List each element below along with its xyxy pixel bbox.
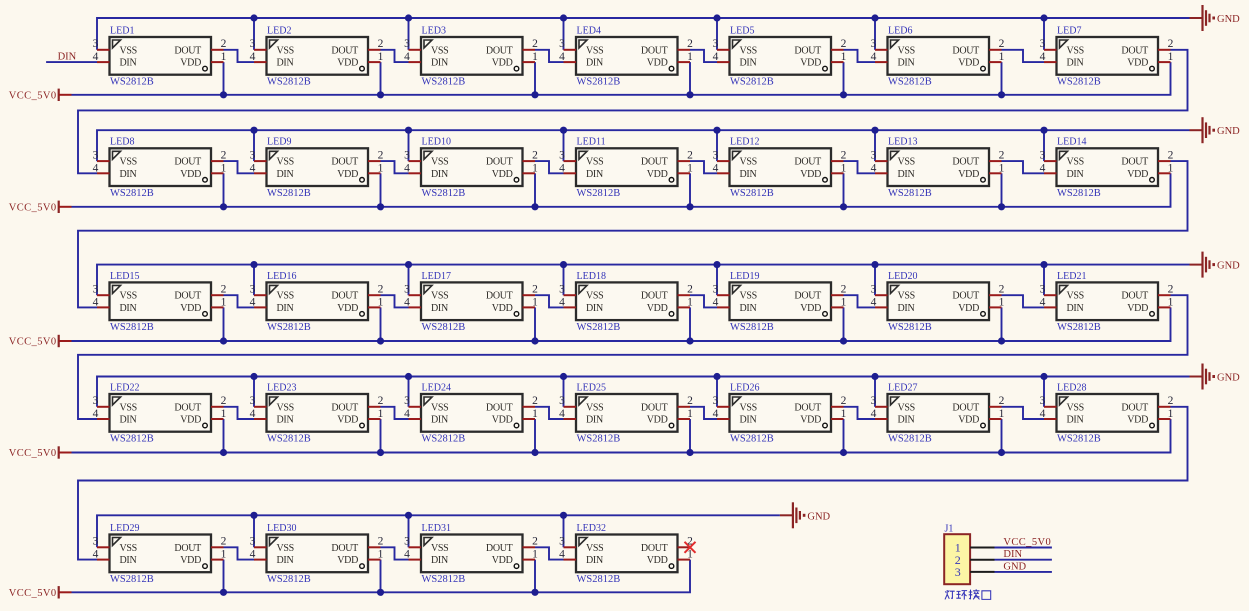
svg-text:LED7: LED7 bbox=[1057, 25, 1081, 36]
svg-text:1: 1 bbox=[1168, 51, 1174, 63]
wire LED31 VDD to VCC rail bbox=[534, 560, 536, 593]
svg-text:WS2812B: WS2812B bbox=[730, 188, 774, 199]
LED6 polarity triangle bbox=[891, 40, 899, 48]
svg-text:GND: GND bbox=[1217, 261, 1240, 272]
svg-text:VDD: VDD bbox=[180, 415, 201, 426]
svg-text:VDD: VDD bbox=[647, 415, 668, 426]
LED5 pin 4 DIN stub bbox=[717, 61, 730, 63]
wire LED7 VSS to GND rail bbox=[1043, 18, 1045, 50]
LED9 pin 3 VSS stub bbox=[254, 160, 267, 162]
svg-text:4: 4 bbox=[404, 296, 410, 308]
svg-text:4: 4 bbox=[1040, 162, 1046, 174]
wire LED17 VSS to GND rail bbox=[408, 265, 410, 296]
LED30 pin 3 VSS stub bbox=[254, 546, 267, 548]
LED8 pin 1 VDD stub bbox=[211, 172, 224, 174]
LED26 pin 3 VSS stub bbox=[717, 406, 730, 408]
svg-text:WS2812B: WS2812B bbox=[267, 434, 311, 445]
LED10 pin 1 VDD stub bbox=[523, 172, 536, 174]
svg-text:VDD: VDD bbox=[1127, 415, 1148, 426]
svg-text:2: 2 bbox=[221, 38, 227, 50]
svg-text:1: 1 bbox=[687, 408, 693, 420]
svg-text:3: 3 bbox=[713, 38, 719, 50]
svg-text:2: 2 bbox=[378, 284, 384, 296]
junction VCC rail row 5 col 1 bbox=[220, 589, 227, 596]
LED12 pin 1 VDD stub bbox=[831, 172, 844, 174]
svg-text:WS2812B: WS2812B bbox=[110, 322, 154, 333]
LED16 pin 3 VSS stub bbox=[254, 294, 267, 296]
LED22 pin 1 marker circle bbox=[203, 423, 208, 428]
svg-text:3: 3 bbox=[955, 565, 961, 579]
LED5 pin 3 VSS stub bbox=[717, 49, 730, 51]
svg-text:WS2812B: WS2812B bbox=[1057, 77, 1101, 88]
LED6 pin 1 VDD stub bbox=[989, 61, 1002, 63]
svg-text:2: 2 bbox=[841, 38, 847, 50]
LED28 body bbox=[1057, 394, 1159, 432]
svg-text:VCC_5V0: VCC_5V0 bbox=[9, 90, 57, 101]
LED8 pin 3 VSS stub bbox=[97, 160, 110, 162]
wire LED23 VSS to GND rail bbox=[253, 377, 255, 407]
wire VCC_5V0 rail row 2 bbox=[72, 173, 1171, 207]
LED10 pin 4 DIN stub bbox=[409, 172, 422, 174]
svg-text:2: 2 bbox=[221, 395, 227, 407]
wire LED13 DOUT to LED14 DIN bbox=[1002, 161, 1045, 173]
svg-text:DOUT: DOUT bbox=[952, 402, 979, 413]
LED25 body bbox=[576, 394, 678, 432]
LED14 polarity triangle bbox=[1060, 151, 1068, 159]
svg-text:3: 3 bbox=[93, 150, 99, 162]
wire LED2 VSS to GND rail bbox=[253, 18, 255, 50]
ground symbol row 5 bbox=[780, 502, 831, 528]
IC LED30 (WS2812B) bbox=[250, 523, 384, 585]
wire VCC_5V0 rail row 3 bbox=[72, 307, 1171, 341]
svg-text:VDD: VDD bbox=[800, 58, 821, 69]
svg-text:DIN: DIN bbox=[120, 415, 137, 426]
LED31 pin 1 VDD stub bbox=[523, 559, 536, 561]
LED31 pin 3 VSS stub bbox=[409, 546, 422, 548]
LED2 body bbox=[267, 37, 369, 75]
LED11 polarity triangle bbox=[579, 151, 587, 159]
LED31 body bbox=[421, 535, 523, 573]
junction GND rail row 1 col 7 bbox=[1040, 14, 1047, 21]
wire LED11 VDD to VCC rail bbox=[689, 173, 691, 207]
LED21 pin 2 DOUT stub bbox=[1158, 294, 1171, 296]
LED20 pin 1 VDD stub bbox=[989, 306, 1002, 308]
svg-text:1: 1 bbox=[378, 408, 384, 420]
svg-text:1: 1 bbox=[999, 296, 1005, 308]
junction VCC rail row 1 col 2 bbox=[377, 91, 384, 98]
junction GND rail row 4 col 6 bbox=[871, 373, 878, 380]
LED21 pin 1 marker circle bbox=[1150, 312, 1155, 317]
svg-text:DIN: DIN bbox=[277, 58, 294, 69]
wire LED32 VSS to GND rail bbox=[563, 515, 565, 547]
junction VCC rail row 1 col 3 bbox=[531, 91, 538, 98]
LED10 body bbox=[421, 148, 523, 186]
LED18 pin 4 DIN stub bbox=[564, 306, 577, 308]
svg-text:LED24: LED24 bbox=[422, 382, 451, 393]
wire LED22 VDD to VCC rail bbox=[223, 419, 225, 453]
svg-text:4: 4 bbox=[93, 296, 99, 308]
LED5 body bbox=[730, 37, 832, 75]
svg-text:VSS: VSS bbox=[120, 543, 137, 554]
svg-text:4: 4 bbox=[404, 549, 410, 561]
svg-text:LED1: LED1 bbox=[110, 25, 134, 36]
svg-text:1: 1 bbox=[532, 408, 538, 420]
svg-text:VSS: VSS bbox=[740, 157, 757, 168]
LED13 pin 4 DIN stub bbox=[875, 172, 888, 174]
LED15 pin 3 VSS stub bbox=[97, 294, 110, 296]
junction VCC rail row 3 col 6 bbox=[998, 337, 1005, 344]
svg-text:VDD: VDD bbox=[337, 303, 358, 314]
junction GND rail row 3 col 6 bbox=[871, 261, 878, 268]
wire LED30 VDD to VCC rail bbox=[380, 560, 382, 593]
junction GND rail row 4 col 2 bbox=[250, 373, 257, 380]
LED21 pin 4 DIN stub bbox=[1044, 306, 1057, 308]
wire LED17 VDD to VCC rail bbox=[534, 307, 536, 341]
wire LED6 VDD to VCC rail bbox=[1001, 62, 1003, 95]
svg-text:VDD: VDD bbox=[800, 169, 821, 180]
wire LED18 VSS to GND rail bbox=[563, 265, 565, 296]
svg-text:DOUT: DOUT bbox=[174, 543, 201, 554]
wire LED27 VSS to GND rail bbox=[874, 377, 876, 407]
ground symbol row 3 bbox=[1190, 252, 1241, 278]
svg-text:1: 1 bbox=[841, 51, 847, 63]
svg-text:VSS: VSS bbox=[586, 402, 603, 413]
LED11 body bbox=[576, 148, 678, 186]
LED4 body bbox=[576, 37, 678, 75]
svg-text:1: 1 bbox=[999, 51, 1005, 63]
svg-text:VDD: VDD bbox=[958, 169, 979, 180]
svg-text:VSS: VSS bbox=[1067, 402, 1084, 413]
wire LED24 VSS to GND rail bbox=[408, 377, 410, 407]
LED6 pin 1 marker circle bbox=[981, 66, 986, 71]
svg-text:3: 3 bbox=[1040, 150, 1046, 162]
wire LED20 DOUT to LED21 DIN bbox=[1002, 295, 1045, 307]
LED1 pin 1 VDD stub bbox=[211, 61, 224, 63]
wire LED6 DOUT to LED7 DIN bbox=[1002, 50, 1045, 62]
LED13 pin 1 VDD stub bbox=[989, 172, 1002, 174]
svg-text:2: 2 bbox=[532, 395, 538, 407]
svg-text:4: 4 bbox=[559, 162, 565, 174]
svg-text:2: 2 bbox=[532, 284, 538, 296]
svg-text:VSS: VSS bbox=[586, 157, 603, 168]
wire net DIN input to LED1 bbox=[46, 61, 97, 63]
svg-text:3: 3 bbox=[250, 395, 256, 407]
junction VCC rail row 3 col 4 bbox=[686, 337, 693, 344]
LED19 body bbox=[730, 282, 832, 320]
junction VCC rail row 3 col 2 bbox=[377, 337, 384, 344]
LED27 pin 1 marker circle bbox=[981, 423, 986, 428]
svg-text:DOUT: DOUT bbox=[1121, 291, 1148, 302]
svg-text:DOUT: DOUT bbox=[174, 402, 201, 413]
IC LED4 (WS2812B) bbox=[559, 25, 693, 87]
IC LED24 (WS2812B) bbox=[404, 382, 538, 444]
wire LED4 VDD to VCC rail bbox=[689, 62, 691, 95]
no-connect flag on LED32 DOUT bbox=[685, 542, 696, 553]
LED11 pin 1 marker circle bbox=[669, 178, 674, 183]
svg-text:LED31: LED31 bbox=[422, 523, 451, 534]
wire LED27 DOUT to LED28 DIN bbox=[1002, 407, 1045, 419]
junction GND rail row 2 col 6 bbox=[871, 127, 878, 134]
junction VCC rail row 4 col 6 bbox=[998, 449, 1005, 456]
svg-text:DOUT: DOUT bbox=[641, 291, 668, 302]
LED8 pin 1 marker circle bbox=[203, 178, 208, 183]
LED23 pin 2 DOUT stub bbox=[368, 406, 381, 408]
svg-text:2: 2 bbox=[841, 150, 847, 162]
LED17 pin 2 DOUT stub bbox=[523, 294, 536, 296]
svg-text:VDD: VDD bbox=[337, 169, 358, 180]
svg-text:4: 4 bbox=[1040, 408, 1046, 420]
LED20 pin 4 DIN stub bbox=[875, 306, 888, 308]
svg-text:3: 3 bbox=[871, 395, 877, 407]
LED26 pin 1 VDD stub bbox=[831, 418, 844, 420]
junction GND rail row 3 col 7 bbox=[1040, 261, 1047, 268]
LED18 pin 1 VDD stub bbox=[678, 306, 691, 308]
LED13 pin 1 marker circle bbox=[981, 178, 986, 183]
IC LED13 (WS2812B) bbox=[871, 137, 1005, 199]
IC LED8 (WS2812B) bbox=[93, 137, 227, 199]
LED24 pin 2 DOUT stub bbox=[523, 406, 536, 408]
LED32 body bbox=[576, 535, 678, 573]
svg-text:VSS: VSS bbox=[740, 291, 757, 302]
LED23 pin 4 DIN stub bbox=[254, 418, 267, 420]
wire LED9 VSS to GND rail bbox=[253, 130, 255, 161]
svg-text:4: 4 bbox=[871, 162, 877, 174]
LED21 pin 1 VDD stub bbox=[1158, 306, 1171, 308]
svg-text:2: 2 bbox=[1168, 284, 1174, 296]
svg-text:VSS: VSS bbox=[1067, 45, 1084, 56]
svg-text:2: 2 bbox=[999, 395, 1005, 407]
LED23 pin 1 VDD stub bbox=[368, 418, 381, 420]
LED14 pin 3 VSS stub bbox=[1044, 160, 1057, 162]
svg-text:DIN: DIN bbox=[431, 58, 448, 69]
LED28 pin 1 marker circle bbox=[1150, 423, 1155, 428]
wire LED4 VSS to GND rail bbox=[563, 18, 565, 50]
LED3 pin 2 DOUT stub bbox=[523, 49, 536, 51]
svg-text:1: 1 bbox=[687, 51, 693, 63]
LED19 pin 2 DOUT stub bbox=[831, 294, 844, 296]
wire LED31 DOUT to LED32 DIN bbox=[535, 547, 564, 559]
LED25 pin 3 VSS stub bbox=[564, 406, 577, 408]
LED30 polarity triangle bbox=[270, 538, 278, 546]
LED32 pin 1 marker circle bbox=[669, 564, 674, 569]
LED19 pin 3 VSS stub bbox=[717, 294, 730, 296]
LED14 pin 1 VDD stub bbox=[1158, 172, 1171, 174]
svg-text:2: 2 bbox=[378, 150, 384, 162]
svg-text:VDD: VDD bbox=[180, 303, 201, 314]
svg-text:VDD: VDD bbox=[492, 58, 513, 69]
LED7 pin 1 VDD stub bbox=[1158, 61, 1171, 63]
svg-text:LED28: LED28 bbox=[1057, 382, 1086, 393]
svg-text:VCC_5V0: VCC_5V0 bbox=[9, 588, 57, 599]
junction GND rail row 2 col 3 bbox=[405, 127, 412, 134]
svg-text:WS2812B: WS2812B bbox=[267, 188, 311, 199]
svg-text:LED2: LED2 bbox=[267, 25, 291, 36]
LED2 pin 1 VDD stub bbox=[368, 61, 381, 63]
J1 pin 1 stub bbox=[970, 547, 994, 549]
junction VCC rail row 2 col 2 bbox=[377, 203, 384, 210]
svg-text:WS2812B: WS2812B bbox=[422, 574, 466, 585]
svg-text:DIN: DIN bbox=[277, 555, 294, 566]
wire GND rail row 5 bbox=[97, 515, 780, 547]
junction GND rail row 1 col 4 bbox=[560, 14, 567, 21]
svg-text:LED6: LED6 bbox=[888, 25, 912, 36]
svg-text:WS2812B: WS2812B bbox=[577, 77, 621, 88]
IC LED26 (WS2812B) bbox=[713, 382, 847, 444]
svg-text:WS2812B: WS2812B bbox=[110, 188, 154, 199]
svg-text:DIN: DIN bbox=[740, 169, 757, 180]
svg-text:DIN: DIN bbox=[431, 303, 448, 314]
svg-text:LED8: LED8 bbox=[110, 137, 134, 148]
IC LED28 (WS2812B) bbox=[1040, 382, 1174, 444]
svg-text:VCC_5V0: VCC_5V0 bbox=[9, 337, 57, 348]
svg-text:DIN: DIN bbox=[1067, 415, 1084, 426]
svg-text:DIN: DIN bbox=[1067, 169, 1084, 180]
svg-text:WS2812B: WS2812B bbox=[422, 322, 466, 333]
LED2 polarity triangle bbox=[270, 40, 278, 48]
junction GND rail row 4 col 7 bbox=[1040, 373, 1047, 380]
wire LED9 DOUT to LED10 DIN bbox=[381, 161, 409, 173]
junction VCC rail row 4 col 1 bbox=[220, 449, 227, 456]
LED21 pin 3 VSS stub bbox=[1044, 294, 1057, 296]
wire GND rail row 3 bbox=[97, 265, 1190, 296]
svg-text:WS2812B: WS2812B bbox=[422, 77, 466, 88]
J1 body bbox=[944, 534, 970, 584]
svg-text:4: 4 bbox=[559, 296, 565, 308]
LED27 pin 1 VDD stub bbox=[989, 418, 1002, 420]
svg-text:VSS: VSS bbox=[120, 157, 137, 168]
LED9 pin 4 DIN stub bbox=[254, 172, 267, 174]
svg-text:VSS: VSS bbox=[431, 157, 448, 168]
LED24 pin 4 DIN stub bbox=[409, 418, 422, 420]
wire LED7 DOUT wrap to LED8 DIN bbox=[78, 50, 1188, 174]
svg-text:WS2812B: WS2812B bbox=[110, 77, 154, 88]
svg-text:4: 4 bbox=[713, 408, 719, 420]
svg-text:LED32: LED32 bbox=[577, 523, 606, 534]
LED29 body bbox=[110, 535, 212, 573]
svg-text:DIN: DIN bbox=[586, 555, 603, 566]
svg-text:3: 3 bbox=[713, 395, 719, 407]
IC LED25 (WS2812B) bbox=[559, 382, 693, 444]
svg-text:DIN: DIN bbox=[898, 169, 915, 180]
LED1 pin 2 DOUT stub bbox=[211, 49, 224, 51]
svg-text:DOUT: DOUT bbox=[794, 157, 821, 168]
LED19 pin 1 VDD stub bbox=[831, 306, 844, 308]
IC LED5 (WS2812B) bbox=[713, 25, 847, 87]
LED14 body bbox=[1057, 148, 1159, 186]
wire LED10 VDD to VCC rail bbox=[534, 173, 536, 207]
LED17 pin 4 DIN stub bbox=[409, 306, 422, 308]
LED9 pin 2 DOUT stub bbox=[368, 160, 381, 162]
svg-text:WS2812B: WS2812B bbox=[267, 322, 311, 333]
connector J1 bbox=[944, 524, 994, 585]
svg-text:4: 4 bbox=[559, 408, 565, 420]
svg-text:4: 4 bbox=[93, 408, 99, 420]
svg-text:VSS: VSS bbox=[120, 291, 137, 302]
wire VCC_5V0 rail row 1 bbox=[72, 62, 1171, 95]
svg-text:DOUT: DOUT bbox=[641, 402, 668, 413]
junction VCC rail row 2 col 6 bbox=[998, 203, 1005, 210]
LED11 pin 2 DOUT stub bbox=[678, 160, 691, 162]
svg-text:GND: GND bbox=[1217, 126, 1240, 137]
svg-text:2: 2 bbox=[687, 38, 693, 50]
svg-text:1: 1 bbox=[378, 162, 384, 174]
svg-text:DOUT: DOUT bbox=[641, 45, 668, 56]
LED14 pin 4 DIN stub bbox=[1044, 172, 1057, 174]
LED9 polarity triangle bbox=[270, 151, 278, 159]
svg-text:1: 1 bbox=[687, 162, 693, 174]
LED28 pin 1 VDD stub bbox=[1158, 418, 1171, 420]
LED21 body bbox=[1057, 282, 1159, 320]
svg-text:4: 4 bbox=[250, 549, 256, 561]
svg-text:1: 1 bbox=[221, 296, 227, 308]
LED20 pin 1 marker circle bbox=[981, 312, 986, 317]
LED32 pin 4 DIN stub bbox=[564, 559, 577, 561]
LED26 pin 1 marker circle bbox=[823, 423, 828, 428]
svg-text:DOUT: DOUT bbox=[331, 45, 358, 56]
wire J1 pin 1 net VCC_5V0 bbox=[995, 547, 1052, 549]
wire LED21 DOUT wrap to LED22 DIN bbox=[78, 295, 1188, 419]
svg-text:LED13: LED13 bbox=[888, 137, 917, 148]
wire LED25 VSS to GND rail bbox=[563, 377, 565, 407]
svg-text:3: 3 bbox=[871, 150, 877, 162]
svg-text:WS2812B: WS2812B bbox=[888, 77, 932, 88]
svg-text:DOUT: DOUT bbox=[331, 543, 358, 554]
LED15 pin 4 DIN stub bbox=[97, 306, 110, 308]
svg-text:WS2812B: WS2812B bbox=[730, 322, 774, 333]
LED5 polarity triangle bbox=[733, 40, 741, 48]
svg-text:1: 1 bbox=[999, 162, 1005, 174]
LED4 pin 4 DIN stub bbox=[564, 61, 577, 63]
svg-text:DOUT: DOUT bbox=[331, 402, 358, 413]
svg-text:J1: J1 bbox=[945, 524, 954, 535]
LED27 polarity triangle bbox=[891, 397, 899, 405]
wire LED13 VDD to VCC rail bbox=[1001, 173, 1003, 207]
LED1 body bbox=[110, 37, 212, 75]
svg-text:3: 3 bbox=[559, 395, 565, 407]
wire LED8 VDD to VCC rail bbox=[223, 173, 225, 207]
IC LED16 (WS2812B) bbox=[250, 271, 384, 333]
junction VCC rail row 5 col 3 bbox=[531, 589, 538, 596]
svg-text:VDD: VDD bbox=[647, 169, 668, 180]
wire LED23 DOUT to LED24 DIN bbox=[381, 407, 409, 419]
LED18 pin 2 DOUT stub bbox=[678, 294, 691, 296]
wire GND rail row 4 bbox=[97, 377, 1190, 407]
LED12 pin 3 VSS stub bbox=[717, 160, 730, 162]
svg-text:LED23: LED23 bbox=[267, 382, 296, 393]
LED20 pin 3 VSS stub bbox=[875, 294, 888, 296]
svg-text:4: 4 bbox=[559, 549, 565, 561]
junction GND rail row 3 col 4 bbox=[560, 261, 567, 268]
IC LED22 (WS2812B) bbox=[93, 382, 227, 444]
svg-text:VSS: VSS bbox=[898, 157, 915, 168]
LED12 body bbox=[730, 148, 832, 186]
wire LED20 VDD to VCC rail bbox=[1001, 307, 1003, 341]
svg-text:DOUT: DOUT bbox=[794, 45, 821, 56]
svg-text:DOUT: DOUT bbox=[1121, 45, 1148, 56]
svg-text:VSS: VSS bbox=[586, 45, 603, 56]
svg-text:2: 2 bbox=[221, 536, 227, 548]
junction VCC rail row 4 col 5 bbox=[840, 449, 847, 456]
LED24 pin 3 VSS stub bbox=[409, 406, 422, 408]
wire LED19 VSS to GND rail bbox=[716, 265, 718, 296]
svg-text:4: 4 bbox=[1040, 51, 1046, 63]
svg-text:2: 2 bbox=[221, 150, 227, 162]
svg-text:1: 1 bbox=[378, 549, 384, 561]
LED15 polarity triangle bbox=[113, 285, 121, 293]
svg-text:4: 4 bbox=[250, 408, 256, 420]
svg-text:LED29: LED29 bbox=[110, 523, 139, 534]
svg-text:LED17: LED17 bbox=[422, 271, 451, 282]
